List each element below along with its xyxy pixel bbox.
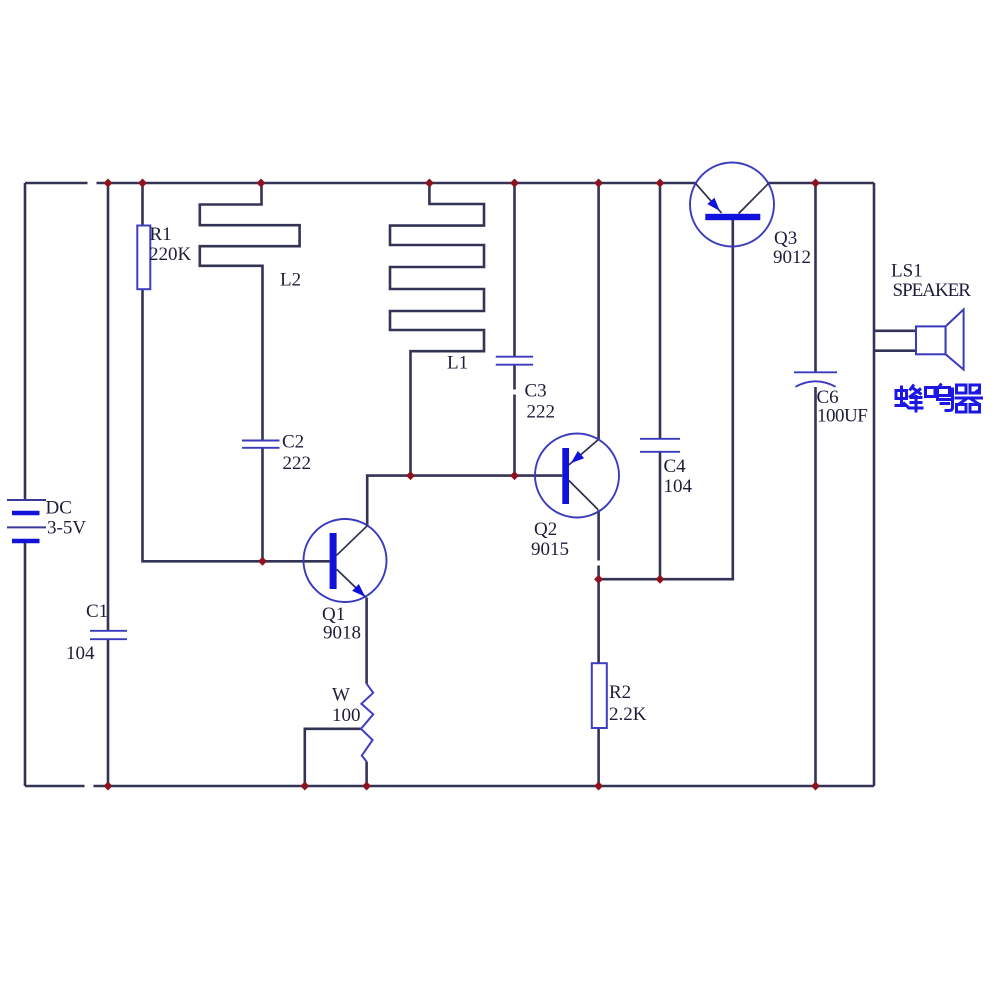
svg-text:100UF: 100UF: [817, 406, 867, 427]
svg-text:9018: 9018: [323, 623, 361, 644]
svg-text:C2: C2: [282, 432, 304, 453]
svg-text:222: 222: [283, 453, 312, 474]
svg-text:9015: 9015: [531, 539, 569, 560]
svg-text:DC: DC: [46, 498, 72, 519]
svg-text:3-5V: 3-5V: [47, 518, 86, 539]
svg-text:LS1: LS1: [891, 261, 923, 282]
svg-text:C4: C4: [664, 456, 687, 477]
svg-text:R1: R1: [150, 224, 172, 245]
svg-text:Q3: Q3: [774, 228, 797, 249]
svg-text:L2: L2: [280, 270, 301, 291]
svg-text:9012: 9012: [773, 247, 811, 268]
svg-text:104: 104: [664, 476, 693, 497]
svg-text:W: W: [332, 685, 350, 706]
svg-text:222: 222: [527, 402, 556, 423]
svg-text:C3: C3: [525, 381, 547, 402]
svg-text:L1: L1: [447, 353, 468, 374]
svg-text:R2: R2: [609, 682, 631, 703]
svg-text:104: 104: [66, 643, 95, 664]
svg-text:SPEAKER: SPEAKER: [893, 280, 972, 301]
svg-text:220K: 220K: [149, 244, 192, 265]
svg-text:100: 100: [332, 705, 361, 726]
svg-text:Q2: Q2: [534, 519, 557, 540]
svg-text:C1: C1: [86, 601, 108, 622]
svg-text:2.2K: 2.2K: [609, 704, 647, 725]
